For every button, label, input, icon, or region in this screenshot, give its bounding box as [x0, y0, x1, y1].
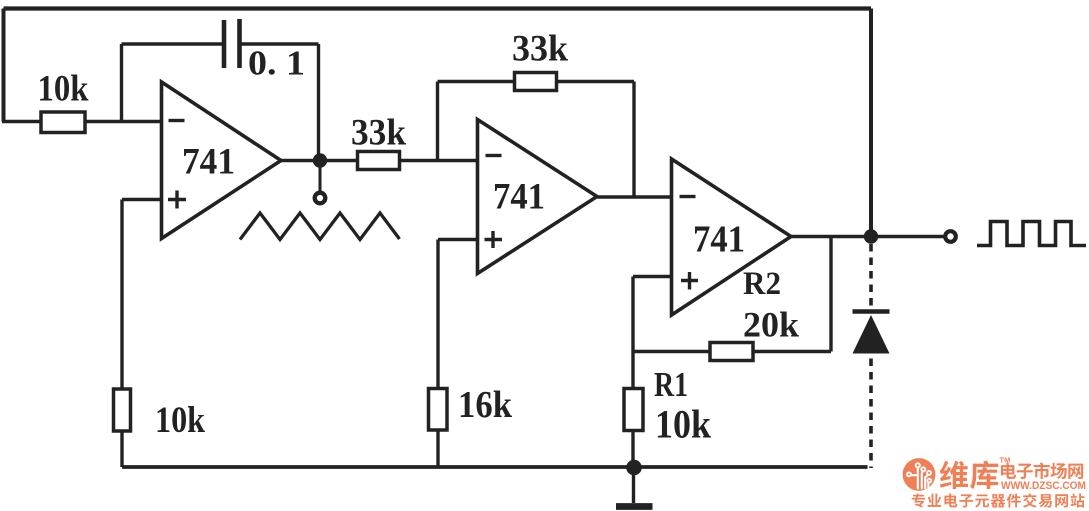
triangle wave symbol	[240, 213, 400, 240]
wire middle column down to bottom rail	[436, 240, 439, 468]
wire U3 output to terminal	[791, 235, 945, 238]
wire U3 plus input lead	[633, 275, 672, 278]
svg-text:33k: 33k	[351, 113, 406, 154]
wire U2 plus input lead	[438, 238, 478, 241]
resistor 33k series (U1 output)	[358, 152, 400, 170]
wire stub to triangle-wave test terminal	[319, 166, 322, 192]
wire U2 feedback left vertical	[436, 82, 439, 161]
op-amp U2 non-inverting input symbol	[485, 231, 503, 248]
wire U1 plus input lead	[122, 198, 162, 201]
wire capacitor left lead	[122, 42, 223, 45]
resistor 20k feedback R2	[710, 343, 753, 361]
resistor 10k left column (vertical)	[114, 389, 131, 431]
wire U2 output to U3 inverting input	[597, 195, 672, 198]
op-amp U1 inverting input symbol	[169, 119, 185, 122]
square wave symbol	[977, 222, 1086, 246]
wire resistor 10k to op-amp U1 inverting input	[85, 120, 162, 123]
svg-text:10k: 10k	[155, 400, 205, 441]
svg-text:10k: 10k	[38, 69, 89, 110]
diode D1 dashed lead top	[869, 244, 873, 309]
svg-text:741: 741	[693, 219, 745, 261]
op-amp U2 741	[478, 120, 598, 274]
wire U2 feedback top right segment	[557, 80, 635, 83]
node U1 output junction dot	[313, 153, 327, 167]
op-amp U2 inverting input symbol	[486, 154, 502, 157]
svg-text:0. 1: 0. 1	[248, 44, 305, 83]
watermark site name	[1001, 462, 1083, 479]
resistor R1 10k (vertical)	[624, 389, 643, 431]
op-amp U3 inverting input symbol	[680, 195, 696, 198]
wire U2 feedback top left segment	[438, 80, 515, 83]
svg-text:R1: R1	[654, 365, 688, 404]
resistor 33k feedback (U2)	[515, 73, 557, 91]
wire input to resistor 10k	[2, 120, 41, 123]
ground stub	[632, 467, 635, 503]
wire U2 feedback right vertical	[632, 82, 635, 198]
svg-text:R2: R2	[743, 266, 781, 302]
svg-text:WWW.DZSC.COM: WWW.DZSC.COM	[1001, 480, 1086, 492]
resistor 16k middle column (vertical)	[429, 389, 448, 431]
wire 20k feedback right vertical	[829, 237, 832, 352]
node ground junction dot	[626, 460, 642, 476]
op-amp U3 741	[672, 159, 792, 315]
op-amp U1 non-inverting input symbol	[168, 191, 186, 209]
op-amp U1 741	[162, 82, 282, 239]
svg-text:20k: 20k	[743, 305, 799, 345]
wire 20k feedback bottom horizontal	[633, 350, 831, 353]
ground bar	[616, 503, 653, 510]
wire R1 column vertical	[631, 277, 634, 468]
wire top feedback rail	[4, 6, 872, 10]
wire bottom rail	[122, 465, 868, 469]
svg-text:741: 741	[493, 176, 545, 217]
svg-text:16k: 16k	[458, 384, 513, 426]
wire capacitor branch drop to output node	[317, 44, 320, 161]
svg-text:741: 741	[182, 141, 235, 182]
node U3 output junction dot	[864, 229, 878, 243]
wire left column down to bottom rail	[120, 200, 123, 468]
capacitor 0.1 plates	[224, 19, 240, 68]
svg-text:10k: 10k	[655, 402, 712, 447]
terminal square-wave output (open circle)	[945, 231, 956, 242]
watermark logo circle	[903, 458, 936, 491]
terminal triangle-wave output (open circle)	[315, 193, 326, 204]
wire capacitor right lead	[242, 42, 319, 45]
op-amp U3 non-inverting input symbol	[681, 272, 698, 290]
svg-text:33k: 33k	[512, 29, 568, 70]
wire resistor 33k to U2 inverting input	[400, 159, 478, 162]
wire U1 output to resistor 33k	[281, 159, 358, 162]
diode D1 cathode bar	[853, 309, 890, 314]
wire top-right drop to output node	[869, 9, 873, 237]
diode D1 triangle	[853, 315, 890, 354]
watermark brand name	[940, 461, 999, 489]
resistor 10k input (top-left)	[41, 112, 85, 133]
watermark slogan	[912, 493, 1085, 507]
diode D1 dashed lead bottom	[869, 359, 873, 469]
wire left drop to input resistor	[2, 9, 6, 122]
wire capacitor branch vertical	[120, 44, 123, 122]
